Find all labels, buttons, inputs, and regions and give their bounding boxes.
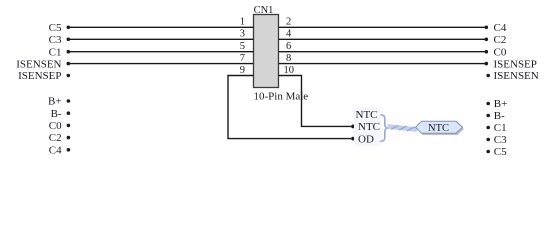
junction dot ISENSEP right	[485, 62, 489, 66]
wire pin 10 to NTC	[279, 76, 352, 127]
label panel background	[354, 108, 382, 147]
svg-text:NTC: NTC	[428, 123, 449, 134]
svg-text:B+: B+	[48, 96, 62, 108]
svg-text:NTC: NTC	[356, 109, 378, 121]
wire pin 6	[279, 51, 487, 53]
svg-text:B+: B+	[494, 98, 508, 110]
svg-text:9: 9	[240, 65, 245, 76]
svg-text:C4: C4	[494, 22, 507, 34]
svg-text:4: 4	[286, 29, 292, 40]
svg-text:ISENSEP: ISENSEP	[18, 70, 61, 82]
svg-text:5: 5	[240, 41, 245, 52]
junction dot C0	[485, 50, 489, 54]
stub dot C1 right	[486, 126, 490, 130]
svg-text:6: 6	[286, 41, 291, 52]
svg-text:ISENSEP: ISENSEP	[494, 58, 537, 70]
svg-text:C2: C2	[494, 34, 507, 46]
svg-text:C5: C5	[49, 22, 62, 34]
stub dot B+ right	[486, 102, 490, 106]
part tag NTC	[416, 121, 465, 135]
svg-text:2: 2	[286, 17, 291, 28]
junction dot C1	[67, 50, 71, 54]
wire pin 5	[68, 51, 253, 53]
junction dot C5	[67, 26, 71, 30]
svg-text:C3: C3	[49, 34, 62, 46]
stub dot C2 left	[67, 136, 71, 140]
svg-text:1: 1	[240, 17, 245, 28]
wire pin 1	[68, 26, 253, 28]
junction dot ISENSEN right	[486, 74, 490, 78]
svg-text:C1: C1	[494, 122, 507, 134]
svg-text:CN1: CN1	[254, 5, 274, 16]
svg-text:C3: C3	[494, 134, 507, 146]
junction dot C4	[485, 26, 489, 30]
stub dot C5 right	[486, 150, 490, 154]
junction dot OD	[351, 137, 355, 141]
wire pin 9 to OD	[228, 76, 351, 139]
wire pin 2	[279, 26, 487, 28]
stub dot C4 left	[67, 148, 71, 152]
svg-text:10-Pin Male: 10-Pin Male	[254, 91, 309, 103]
wire pin 8	[279, 63, 487, 65]
svg-text:C1: C1	[49, 46, 62, 58]
junction dot C3	[67, 38, 71, 42]
wire pin 3	[68, 38, 253, 40]
svg-text:C5: C5	[494, 146, 507, 158]
junction dot C2	[485, 38, 489, 42]
junction dot ISENSEP left	[67, 74, 71, 78]
connector CN1 body	[254, 15, 279, 88]
junction dot ISENSEN left	[67, 62, 71, 66]
svg-text:C2: C2	[49, 132, 62, 144]
svg-text:OD: OD	[358, 133, 374, 145]
svg-text:7: 7	[240, 53, 245, 64]
svg-text:B-: B-	[494, 110, 505, 122]
svg-text:ISENSEN: ISENSEN	[16, 58, 61, 70]
wire pin 4	[279, 38, 487, 40]
svg-text:C0: C0	[494, 46, 507, 58]
junction dot NTC	[351, 125, 355, 129]
svg-text:ISENSEN: ISENSEN	[494, 70, 539, 82]
cable to NTC thermistor	[388, 125, 418, 131]
svg-text:C0: C0	[49, 120, 62, 132]
stub dot C0 left	[67, 124, 71, 128]
stub dot B+ left	[67, 99, 71, 103]
svg-text:3: 3	[240, 29, 245, 40]
stub dot B- left	[67, 111, 71, 115]
stub dot C3 right	[486, 138, 490, 142]
stub dot B- right	[486, 114, 490, 118]
svg-text:8: 8	[286, 53, 291, 64]
svg-text:C4: C4	[49, 144, 62, 156]
svg-text:10: 10	[284, 65, 295, 76]
svg-text:B-: B-	[51, 108, 62, 120]
brace group NTC/OD	[381, 115, 388, 142]
wire pin 7	[68, 63, 253, 65]
svg-text:NTC: NTC	[358, 121, 380, 133]
